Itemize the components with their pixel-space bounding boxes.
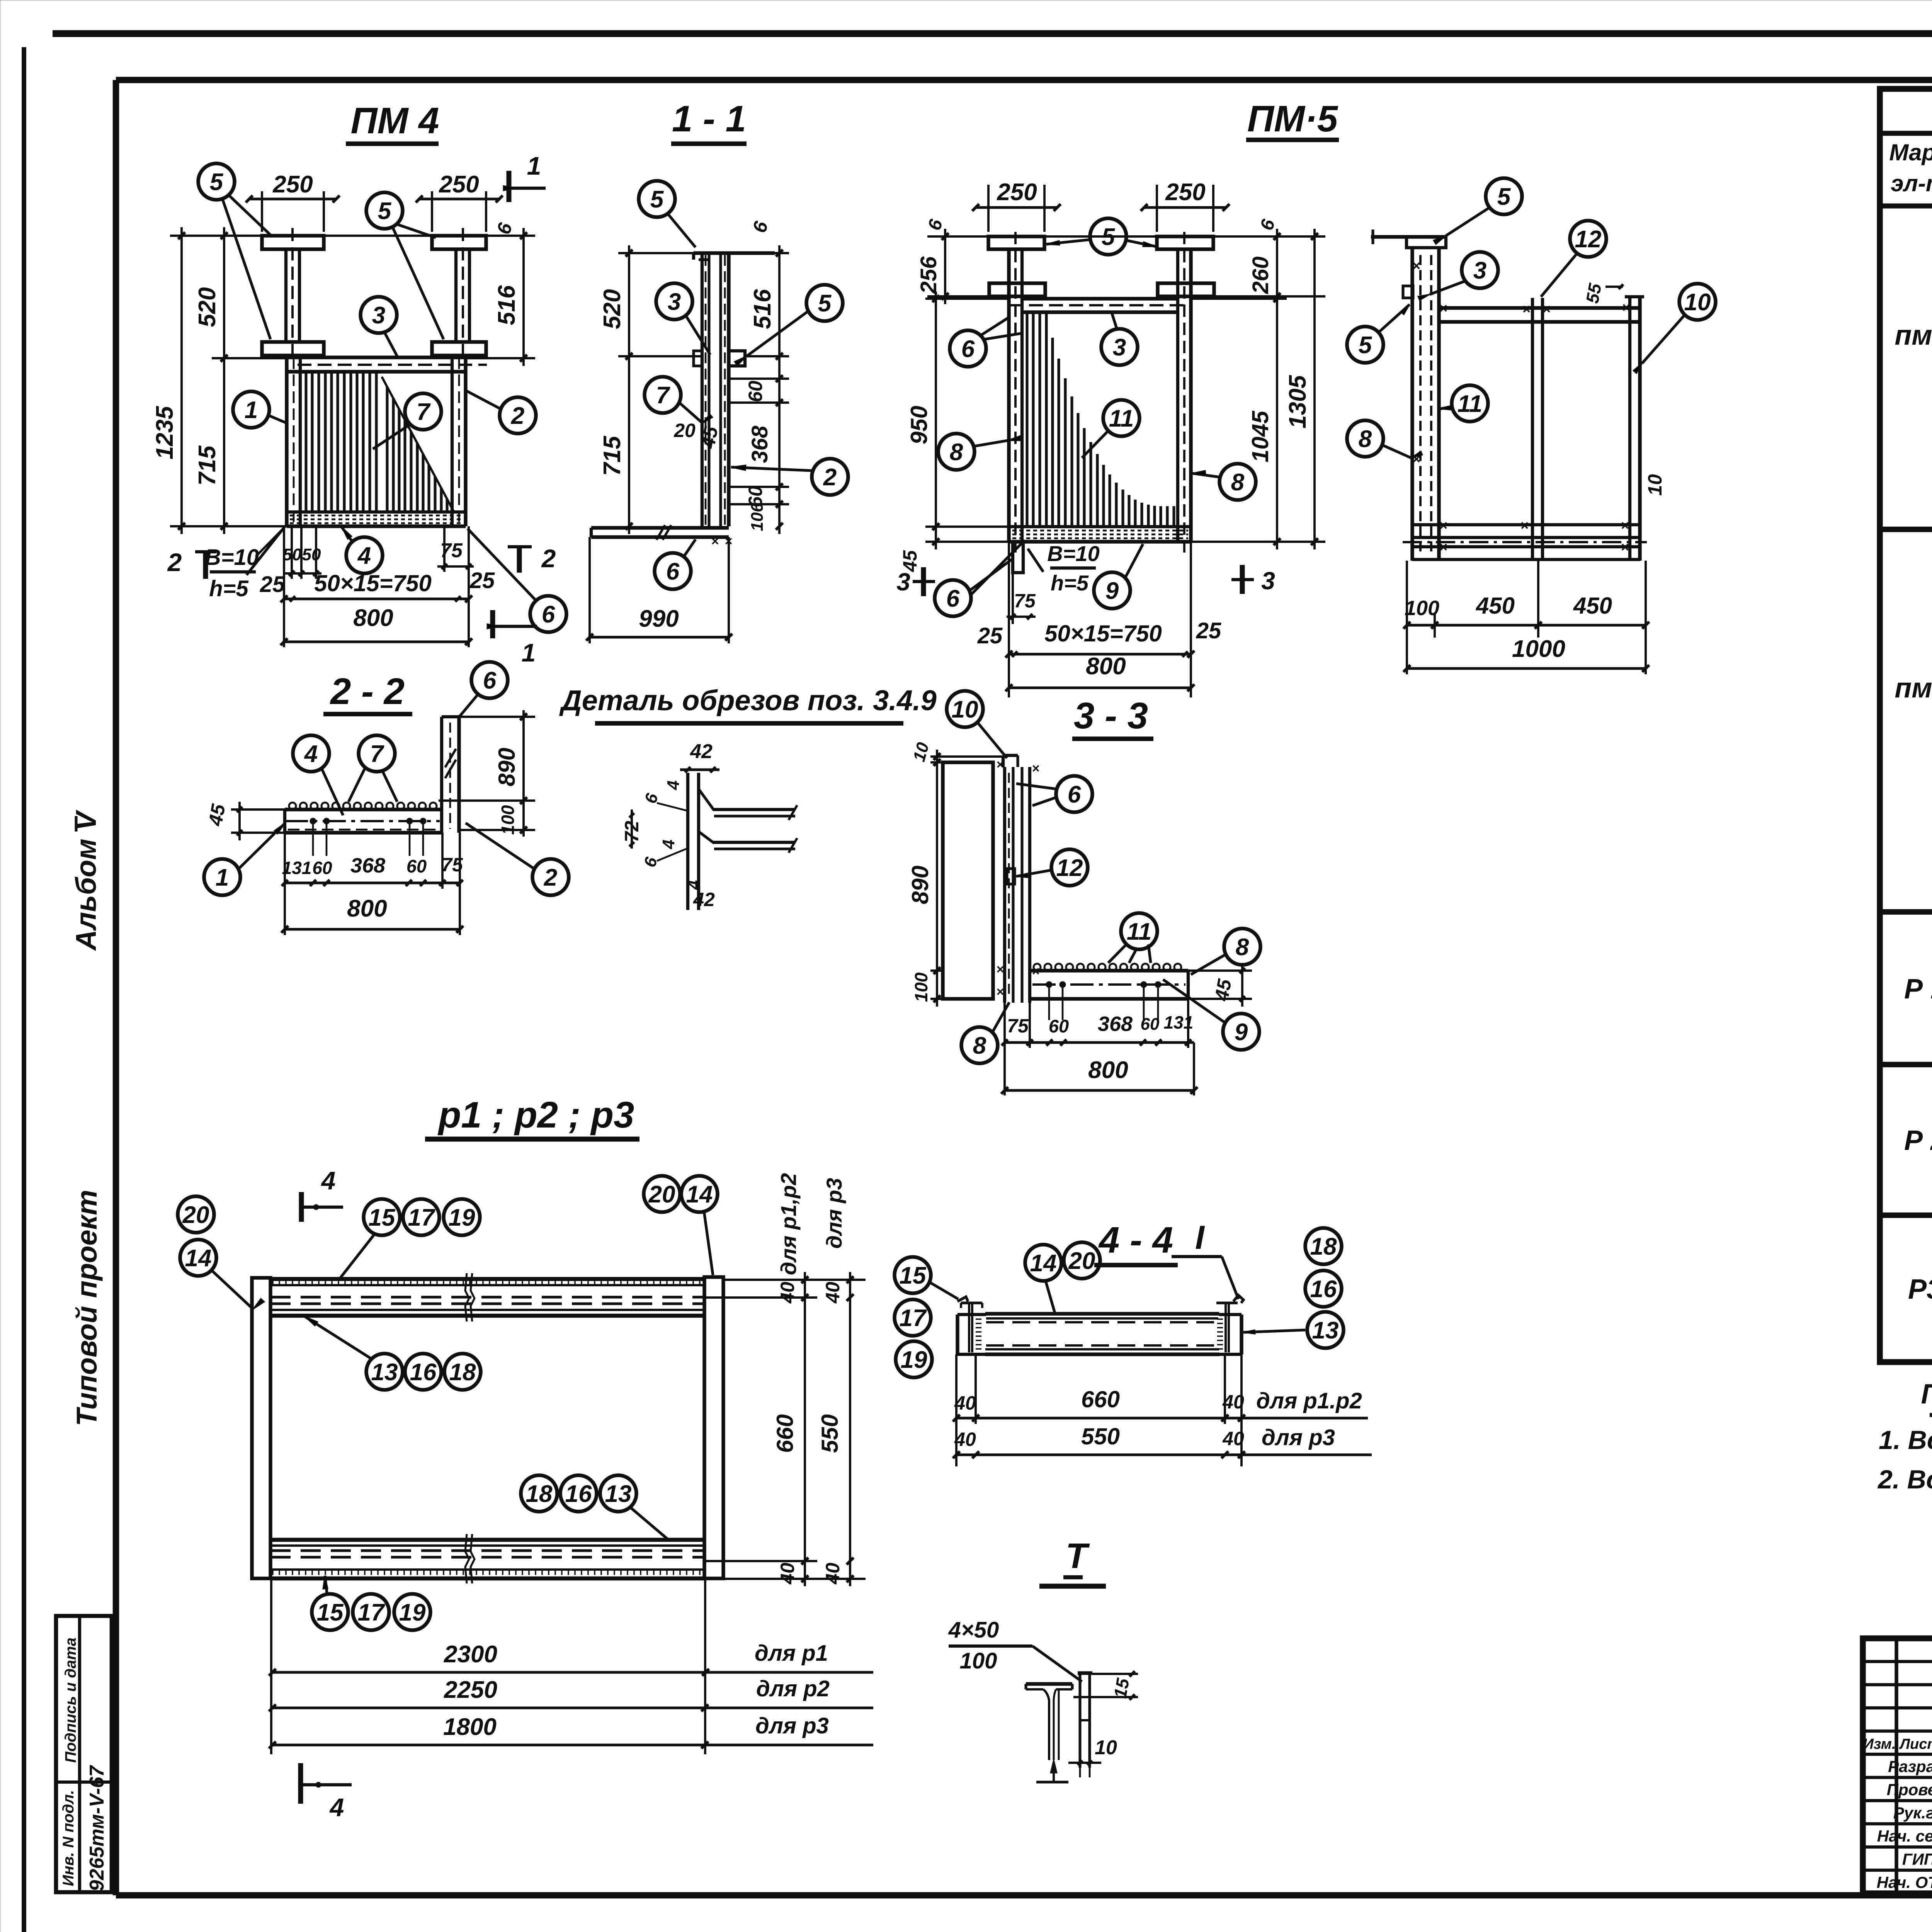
PM4 right post top plate pos5 [432, 236, 486, 249]
svg-text:13: 13 [371, 1359, 398, 1386]
PM5 left post top plate pos5 [988, 236, 1044, 249]
P1P2P3 section mark 4 top [299, 1192, 304, 1222]
1-1 callout 6 [655, 553, 691, 589]
svg-text:5: 5 [378, 198, 392, 224]
PM5 section mark 3 right [1240, 565, 1245, 594]
svg-text:ГИП: ГИП [1902, 1850, 1932, 1868]
svg-text:Р 2: Р 2 [1904, 1125, 1932, 1156]
3-3 bolts pos11 row [1034, 964, 1041, 971]
PM4 callout 7 [405, 393, 441, 430]
PM4 dim chain 520/715 [223, 227, 225, 534]
svg-text:15: 15 [369, 1204, 396, 1231]
svg-text:×: × [996, 985, 1004, 999]
svg-text:520: 520 [599, 289, 626, 329]
PM4 callout 4 [346, 537, 383, 573]
svg-text:40: 40 [777, 1282, 798, 1304]
svg-text:715: 715 [194, 445, 221, 486]
PM5 callout 8 right [1219, 464, 1256, 500]
svg-text:660: 660 [772, 1414, 798, 1453]
svg-text:×: × [1520, 517, 1528, 533]
svg-text:8: 8 [950, 439, 963, 466]
svg-text:250: 250 [439, 171, 479, 198]
svg-text:Разраб.: Разраб. [1888, 1757, 1932, 1776]
svg-text:для р3: для р3 [755, 1713, 829, 1738]
PM4 callout 1 [233, 391, 269, 428]
PM4 dim 250 left [261, 191, 263, 232]
svg-text:60: 60 [312, 858, 332, 878]
svg-text:для р3: для р3 [822, 1178, 846, 1248]
PM5side callout 5 top [1486, 178, 1522, 214]
svg-text:25: 25 [260, 572, 285, 597]
PM5 callout 6 topleft [950, 330, 986, 367]
PM4 right post stem [454, 249, 457, 342]
svg-text:19: 19 [399, 1599, 426, 1626]
svg-text:17: 17 [900, 1305, 927, 1332]
PM4 section mark 2 left [195, 550, 216, 553]
svg-text:19: 19 [901, 1347, 927, 1373]
1-1 mid tab left pos5 [694, 351, 702, 366]
svg-text:20: 20 [182, 1202, 209, 1228]
svg-text:660: 660 [1081, 1386, 1120, 1412]
4-4 beam pos14/20 [985, 1312, 1219, 1315]
svg-text:890: 890 [494, 748, 520, 786]
1-1 dims 60/368/60/106 [729, 378, 789, 380]
svg-text:для р1: для р1 [755, 1641, 828, 1666]
svg-text:11: 11 [1458, 391, 1482, 417]
svg-text:19: 19 [449, 1204, 475, 1231]
P1P2P3 right end plate pos14 [704, 1277, 723, 1578]
svg-text:25: 25 [977, 623, 1003, 648]
svg-text:1800: 1800 [443, 1714, 497, 1740]
svg-text:×: × [1622, 299, 1630, 315]
2-2 bolts pos7 row [289, 803, 296, 810]
svg-text:13: 13 [1312, 1317, 1339, 1344]
3-3 callout 8 bottomleft [961, 1027, 998, 1063]
svg-text:15: 15 [317, 1599, 344, 1626]
P1P2P3 break marks [465, 1273, 469, 1321]
svg-text:40: 40 [1222, 1428, 1244, 1449]
svg-text:2: 2 [511, 403, 524, 429]
PM5side callout 12 [1570, 221, 1606, 257]
PM5side callout 3 [1462, 252, 1498, 288]
P1P2P3 callouts lower trio 18 16 13 [521, 1475, 557, 1512]
PM5 top level line between posts [1044, 235, 1157, 238]
svg-text:1: 1 [245, 397, 258, 423]
svg-text:3: 3 [372, 302, 385, 329]
svg-text:40: 40 [954, 1392, 976, 1414]
svg-text:715: 715 [599, 435, 626, 476]
PM4 top level line between posts [324, 235, 432, 237]
svg-text:5: 5 [818, 290, 832, 317]
svg-text:14: 14 [686, 1181, 713, 1208]
3-3 strips pos8 web and pos12 [1003, 767, 1006, 1003]
2-2 channel pos6 vertical [440, 717, 443, 833]
svg-text:Нач. сект.: Нач. сект. [1877, 1827, 1932, 1845]
3-3 callout 10 [947, 691, 983, 727]
1-1 dim chain 520/715 [618, 252, 694, 254]
svg-text:h=5: h=5 [209, 576, 248, 601]
svg-text:8: 8 [1231, 469, 1245, 496]
svg-text:550: 550 [1081, 1423, 1120, 1449]
PM5side bottom dims 100/450/450 [1406, 561, 1408, 674]
PM4 callout 6 [530, 596, 566, 632]
title block left columns [1895, 1638, 1898, 1893]
svg-text:×: × [1542, 301, 1550, 317]
P1P2P3 right dim chain 660 [723, 1279, 866, 1281]
svg-text:10: 10 [952, 696, 978, 723]
PM5side callout 11 [1452, 385, 1488, 422]
P1P2P3 callouts mid trio 13 16 18 [366, 1354, 403, 1390]
PM5 dim chain 950/45 left [925, 298, 1009, 300]
svg-text:4: 4 [664, 781, 683, 790]
PM4 section mark 2 right [508, 545, 532, 548]
3-3 callout 8 right [1224, 929, 1260, 965]
PM5 dim chain 1045 right [1191, 298, 1287, 300]
svg-text:100: 100 [960, 1648, 997, 1673]
svg-text:Инв. N подл.: Инв. N подл. [60, 1790, 77, 1886]
svg-text:×: × [1412, 258, 1420, 274]
svg-text:×: × [711, 534, 719, 549]
svg-text:800: 800 [1086, 653, 1126, 680]
svg-text:16: 16 [410, 1359, 437, 1386]
svg-text:5: 5 [1102, 224, 1116, 250]
1-1 mid tab right pos5 [729, 351, 745, 366]
svg-text:эл-та: эл-та [1891, 170, 1932, 196]
PM5 dim chain 260 right [1213, 235, 1325, 238]
svg-text:131: 131 [282, 858, 312, 878]
PM5side callout 5 left [1347, 327, 1383, 363]
svg-text:45: 45 [697, 425, 722, 451]
2-2 callout 6 [471, 662, 508, 698]
2-2 dim 45 left [231, 808, 285, 811]
PM5side middle bar pos12 [1531, 298, 1534, 561]
sheet outer border top [53, 30, 1932, 37]
PM5 callout 6 bottom [935, 580, 971, 616]
PM5 dim chain 256/6 left [927, 235, 988, 238]
svg-text:106: 106 [748, 503, 767, 531]
PM5side callout 8 [1347, 420, 1383, 457]
PM5 right column pos8 [1176, 249, 1179, 542]
svg-text:40: 40 [822, 1563, 844, 1585]
detail T bolt pos19 [1078, 1673, 1081, 1768]
svg-text:17: 17 [408, 1204, 435, 1231]
PM4 dim 50x15=750 [284, 597, 469, 600]
P1P2P3 right dim chain 550 [849, 1272, 851, 1586]
svg-text:2: 2 [541, 544, 556, 573]
P1P2P3 callouts bottom trio 15 17 19 [312, 1594, 348, 1630]
P1P2P3 bottom dim 2250 [271, 1706, 873, 1709]
P1P2P3 section mark 4 bottom [298, 1763, 303, 1804]
svg-text:16: 16 [1310, 1276, 1337, 1303]
4-4 right bolt [1233, 1295, 1243, 1303]
4-4 right end channel [1240, 1315, 1243, 1354]
PM5 bottom dim 800 [1009, 686, 1191, 689]
svg-text:Подпись и дата: Подпись и дата [62, 1638, 79, 1763]
table header row [1880, 204, 1932, 209]
svg-text:17: 17 [358, 1599, 385, 1626]
drawing frame bottom [116, 1892, 1932, 1899]
2-2 dim 800 [284, 889, 286, 935]
svg-text:890: 890 [907, 866, 933, 904]
1-1 vertical member flange [719, 253, 722, 526]
1-1 dim 516 + 6 right [775, 252, 789, 254]
svg-text:3: 3 [1113, 334, 1126, 361]
PM5side top beam pos3 [1439, 306, 1640, 310]
P1P2P3 left end plate pos14 [252, 1278, 270, 1578]
1-1 callout 7 [645, 377, 681, 413]
svg-text:40: 40 [777, 1563, 798, 1585]
PM4 left post top plate pos5 [262, 236, 324, 249]
detail top flange [713, 808, 795, 811]
4-4 right I-section cut [1216, 1301, 1238, 1304]
P1P2P3 callouts top trio 15 17 19 [364, 1199, 400, 1235]
P1P2P3 top beam pos13/16/18 [270, 1277, 704, 1281]
PM4 bars diagonal envelope [382, 377, 454, 512]
3-3 left channel flange pos8 [943, 762, 993, 999]
PM5 left stub [1013, 542, 1023, 573]
svg-text:18: 18 [526, 1481, 553, 1507]
svg-text:1305: 1305 [1284, 375, 1311, 429]
PM4 top member pos3 [287, 355, 466, 359]
PM4 callout 2 [500, 397, 536, 434]
PM5 callout 11 [1103, 400, 1139, 436]
sheet outer border left [22, 47, 26, 1932]
3-3 bolt dots [1046, 981, 1052, 988]
svg-text:75: 75 [1014, 590, 1036, 612]
svg-text:520: 520 [194, 287, 221, 327]
svg-text:Р 1: Р 1 [1904, 974, 1932, 1005]
2-2 dim 890/100 right [459, 716, 535, 718]
svg-text:Примечания:: Примечания: [1921, 1379, 1932, 1410]
svg-text:2: 2 [823, 464, 837, 491]
PM4 dim 516 right [486, 235, 535, 237]
svg-text:ПМ·5: ПМ·5 [1247, 98, 1338, 139]
stamp box inv/podpis [56, 1616, 112, 1892]
svg-text:5: 5 [1359, 332, 1372, 359]
svg-text:6: 6 [483, 667, 497, 694]
PM5 callout 9 [1094, 572, 1130, 609]
detail vertical bar [686, 773, 689, 910]
svg-text:100: 100 [498, 805, 518, 835]
svg-text:16: 16 [565, 1481, 592, 1507]
svg-text:950: 950 [906, 406, 932, 444]
detail T dim 15 [1092, 1673, 1138, 1675]
svg-text:10: 10 [1684, 289, 1711, 316]
3-3 callout 9 [1223, 1014, 1259, 1050]
svg-text:для р1.р2: для р1.р2 [1256, 1388, 1362, 1413]
PM4 round bars pos7 dense [304, 372, 307, 512]
P1P2P3 bottom dim 2300 [270, 1578, 272, 1754]
svg-text:7: 7 [417, 399, 431, 425]
detail dim 42 top [680, 768, 719, 771]
4-4 left bolt pos15 [957, 1297, 968, 1301]
svg-text:4: 4 [329, 1793, 344, 1821]
svg-text:25: 25 [469, 568, 495, 593]
svg-text:10: 10 [1644, 474, 1666, 496]
PM5side notch pos5 [1403, 286, 1413, 298]
svg-text:25: 25 [1196, 618, 1221, 643]
svg-text:Марка: Марка [1889, 139, 1932, 165]
svg-text:1 - 1: 1 - 1 [672, 98, 746, 139]
svg-text:2250: 2250 [444, 1677, 497, 1703]
svg-text:×: × [1621, 539, 1629, 555]
1-1 callout 5 top [639, 181, 675, 217]
title block left rows [1863, 1660, 1932, 1663]
svg-text:Нач. ОТПП: Нач. ОТПП [1877, 1873, 1932, 1891]
svg-text:4: 4 [321, 1166, 336, 1195]
svg-text:516: 516 [493, 285, 520, 325]
svg-text:256: 256 [916, 256, 941, 294]
svg-text:42: 42 [693, 889, 715, 910]
PM5side bottom rail pos6 lower [1412, 545, 1640, 548]
1-1 callout 5 right [806, 285, 843, 321]
2-2 bolt dots [310, 818, 316, 824]
PM5 right post top plate pos5 [1157, 236, 1213, 249]
svg-text:800: 800 [353, 605, 393, 631]
3-3 dim 45 right [1188, 969, 1252, 972]
P1P2P3 bottom beam pos15/17/19 [270, 1538, 704, 1542]
svg-text:1: 1 [527, 151, 541, 180]
PM4 bottom member pos4 [287, 510, 466, 514]
svg-text:6: 6 [542, 601, 555, 628]
svg-text:3: 3 [668, 289, 681, 315]
svg-text:×: × [996, 962, 1004, 977]
svg-text:для р1,р2: для р1,р2 [776, 1173, 801, 1275]
PM4 dim chain 1235 [170, 235, 262, 237]
svg-text:×: × [1032, 761, 1039, 776]
svg-text:4×50: 4×50 [948, 1617, 999, 1643]
svg-text:Т: Т [1066, 1536, 1090, 1576]
P1P2P3 bottom dim 1800 [271, 1743, 873, 1746]
svg-text:60: 60 [745, 381, 766, 402]
PM4 callout 5 mid [366, 192, 403, 229]
PM4 dim 75 [443, 526, 446, 572]
svg-text:260: 260 [1248, 257, 1273, 294]
svg-text:7: 7 [370, 741, 384, 767]
svg-text:4: 4 [304, 741, 318, 767]
PM4 round bars pos7 staircase [386, 387, 388, 512]
svg-text:450: 450 [1476, 593, 1515, 619]
svg-text:60: 60 [1049, 1016, 1069, 1036]
svg-text:100: 100 [1405, 597, 1439, 620]
svg-text:20: 20 [673, 420, 696, 441]
svg-text:2300: 2300 [444, 1641, 497, 1668]
4-4 callouts 14 20 [1025, 1245, 1061, 1281]
svg-text:×: × [996, 757, 1004, 772]
svg-text:13: 13 [605, 1481, 632, 1507]
svg-text:50: 50 [283, 545, 302, 564]
1-1 callout 3 [656, 283, 692, 320]
1-1 callout 2 [812, 459, 848, 495]
PM4 left post stem [284, 249, 287, 342]
specification table outer frame [1880, 89, 1932, 1362]
drawing frame top [116, 77, 1932, 83]
4-4 left end channel [956, 1315, 959, 1354]
svg-text:250: 250 [997, 179, 1037, 206]
svg-text:250: 250 [272, 171, 313, 198]
svg-text:8: 8 [973, 1032, 986, 1059]
PM5 dim 75 stub [1012, 573, 1014, 624]
svg-text:45: 45 [1211, 977, 1236, 1003]
svg-text:100: 100 [911, 972, 931, 1002]
svg-text:3 - 3: 3 - 3 [1074, 695, 1148, 736]
svg-text:6: 6 [666, 558, 680, 585]
table title row [1880, 131, 1932, 136]
svg-text:×: × [1522, 301, 1530, 317]
svg-text:9: 9 [1105, 578, 1119, 604]
svg-text:4: 4 [659, 840, 678, 849]
svg-text:18: 18 [1310, 1233, 1337, 1260]
PM4 left column pos1 [285, 357, 288, 526]
svg-text:для р3: для р3 [1262, 1425, 1335, 1450]
svg-text:×: × [1439, 539, 1447, 555]
svg-text:2 - 2: 2 - 2 [330, 671, 405, 712]
3-3 callout 12 [1051, 849, 1088, 886]
P1P2P3 callouts left 20 14 [178, 1196, 214, 1233]
svg-text:Провер.: Провер. [1887, 1781, 1932, 1799]
PM5 bottom dim 50x15=750 [1008, 542, 1010, 697]
svg-text:2. Все сварные швы h= 6: 2. Все сварные швы h= 6мм, кроме оговоре… [1877, 1465, 1932, 1494]
svg-text:20: 20 [1068, 1248, 1095, 1274]
PM4 left post lower plate pos5 [262, 342, 324, 355]
3-3 top hook pos10 [1003, 754, 1018, 757]
2-2 callout 7 [359, 735, 395, 772]
svg-text:Лист: Лист [1899, 1736, 1932, 1752]
svg-text:20: 20 [648, 1181, 675, 1208]
svg-text:8: 8 [1359, 426, 1372, 452]
svg-text:пм 4: пм 4 [1895, 320, 1932, 351]
detail T tee section [1026, 1682, 1072, 1685]
svg-text:6: 6 [961, 336, 975, 362]
svg-text:2: 2 [544, 864, 557, 891]
svg-text:6: 6 [946, 585, 960, 612]
PM5side left column pos8 [1410, 248, 1414, 561]
svg-text:10: 10 [1095, 1736, 1117, 1759]
svg-text:В=10: В=10 [1047, 541, 1099, 566]
svg-text:7: 7 [656, 382, 670, 409]
PM4 dim 50 50 [291, 526, 293, 579]
svg-text:1235: 1235 [151, 406, 178, 459]
P1P2P3 callouts right 20 14 [644, 1176, 680, 1212]
title block frame [1863, 1638, 1932, 1893]
svg-text:1: 1 [216, 864, 229, 891]
svg-text:Типовой проект: Типовой проект [71, 1190, 103, 1426]
svg-text:50×15=750: 50×15=750 [1044, 621, 1162, 646]
svg-text:42: 42 [690, 740, 713, 763]
svg-text:60: 60 [406, 856, 427, 876]
svg-text:3: 3 [896, 568, 910, 596]
PM4 right column pos2 [451, 357, 454, 526]
svg-text:6: 6 [1068, 781, 1081, 808]
svg-text:800: 800 [347, 895, 387, 922]
2-2 bottom dims [284, 833, 286, 889]
1-1 dim 990 [588, 537, 591, 643]
1-1 base plate pos6 [591, 526, 729, 529]
svg-text:60: 60 [1141, 1015, 1160, 1034]
svg-text:15: 15 [900, 1262, 927, 1289]
PM5 right post lower plate pos5 [1158, 283, 1214, 296]
PM5 dim 250 right [1156, 185, 1158, 232]
svg-text:50: 50 [302, 545, 321, 564]
4-4 left I-section pos13 cut [961, 1301, 982, 1304]
svg-text:1: 1 [522, 638, 536, 667]
PM4 callout 3 [361, 297, 397, 333]
svg-text:Изм.: Изм. [1863, 1736, 1896, 1752]
svg-text:В=10: В=10 [205, 545, 259, 570]
svg-text:×: × [1032, 964, 1039, 979]
svg-text:40: 40 [822, 1282, 844, 1304]
svg-text:р1 ; р2 ; р3: р1 ; р2 ; р3 [437, 1094, 634, 1136]
